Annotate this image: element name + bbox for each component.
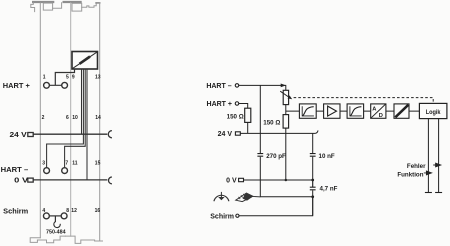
- module top link ledge 1: [53, 3, 62, 8]
- pin 7: [62, 168, 68, 174]
- wire C3 to Schirm line: [312, 190, 314, 215]
- block filter 1: [299, 104, 316, 118]
- bus line right from Logik: [438, 119, 440, 193]
- resistor R1 150 Ohm: [245, 108, 251, 122]
- block amplifier: [324, 104, 340, 118]
- capacitor C1 270 pF: [257, 154, 263, 157]
- wire R1 to 24V rail: [247, 122, 249, 133]
- module bottom profile right: [65, 236, 94, 243]
- 24V rail wire: [33, 133, 108, 135]
- bus line right end bar: [435, 192, 442, 194]
- block A/D converter: [371, 104, 386, 119]
- terminal 24V plug: [235, 132, 240, 135]
- svg-text:Funktion: Funktion: [397, 171, 423, 178]
- svg-text:4: 4: [42, 208, 45, 214]
- svg-text:0 V: 0 V: [14, 178, 28, 185]
- junction dot shield node: [311, 195, 314, 198]
- internal bus wire 4 (to 0V rail): [86, 69, 88, 180]
- shield symbol: [236, 193, 261, 202]
- block Logik: [419, 103, 447, 118]
- module right edge: [99, 3, 101, 241]
- block galvanic isolation: [394, 104, 409, 118]
- electronics converter box U1 with diagonal: [72, 52, 98, 70]
- terminal HART -: [235, 84, 239, 88]
- shield clamp hook: [54, 216, 60, 228]
- junction dot 0V rail: [311, 179, 314, 182]
- 0V pass-through contact arc: [109, 177, 112, 184]
- svg-text:10: 10: [72, 115, 78, 121]
- modulator arrow diagonal: [280, 91, 290, 98]
- module top link ledge 2: [82, 3, 100, 7]
- svg-text:5: 5: [66, 75, 69, 81]
- bus line left end bar: [425, 192, 432, 194]
- wire 24V rail to C2: [312, 133, 314, 153]
- terminal HART +: [235, 102, 239, 106]
- pin 8: [61, 213, 67, 219]
- svg-text:6: 6: [66, 115, 69, 121]
- svg-text:150 Ω: 150 Ω: [227, 113, 244, 120]
- module top notch box 1: [43, 3, 52, 10]
- wire C1 to shield node: [260, 157, 312, 197]
- arrow Funktion to left bus line: [424, 171, 432, 175]
- junction dot R2 on 0V rail: [285, 179, 288, 182]
- functional earth symbol: [214, 192, 229, 201]
- svg-text:750-484: 750-484: [46, 230, 66, 236]
- pin 1: [44, 82, 50, 88]
- arrow Fehler to right bus line: [433, 163, 441, 167]
- module column separator: [70, 3, 72, 236]
- bus line left from Logik: [427, 119, 429, 193]
- svg-text:4,7 nF: 4,7 nF: [320, 185, 338, 192]
- svg-text:24 V: 24 V: [10, 132, 28, 139]
- dashed control line modulator to Logik: [294, 98, 434, 104]
- svg-text:7: 7: [65, 160, 68, 166]
- wire modulator to node A: [285, 105, 287, 115]
- svg-text:HART –: HART –: [206, 83, 231, 90]
- svg-text:2: 2: [42, 115, 45, 121]
- 0V rail wire: [244, 179, 313, 181]
- svg-text:11: 11: [72, 160, 78, 166]
- terminal Schirm: [236, 214, 239, 217]
- wire R2 to 0V rail: [285, 128, 287, 180]
- svg-text:13: 13: [95, 75, 101, 81]
- internal bus wire 2 (to pin 3): [47, 69, 84, 168]
- svg-text:A: A: [372, 107, 376, 113]
- svg-text:Schirm: Schirm: [210, 214, 234, 221]
- svg-text:D: D: [379, 113, 383, 119]
- 24V rail wire with end hook: [240, 130, 318, 133]
- 24V terminal plug: [28, 133, 33, 137]
- svg-text:150 Ω: 150 Ω: [263, 120, 280, 127]
- svg-text:9: 9: [72, 75, 75, 81]
- 0V rail wire: [33, 179, 108, 181]
- svg-text:HART +: HART +: [3, 83, 30, 90]
- module top profile bar A: [33, 1, 53, 3]
- svg-text:14: 14: [95, 115, 101, 121]
- svg-text:15: 15: [95, 160, 101, 166]
- svg-text:1: 1: [43, 75, 46, 81]
- svg-text:24 V: 24 V: [218, 131, 233, 138]
- module bottom right foot: [95, 240, 103, 242]
- HART+ bridge wire pins 1-5 to box: [49, 69, 74, 85]
- svg-text:16: 16: [95, 208, 101, 214]
- module top left latch claw: [31, 3, 35, 12]
- wire C2 to 0V rail: [312, 157, 314, 180]
- capacitor C2 10 nF: [310, 154, 316, 157]
- 24V pass-through contact arc: [108, 131, 112, 138]
- module left edge: [39, 3, 41, 238]
- block filter 2: [347, 104, 364, 118]
- wire HART + to R1: [239, 104, 248, 109]
- current direction arrow: [281, 84, 286, 88]
- svg-text:3: 3: [42, 160, 45, 166]
- Schirm wire: [239, 197, 313, 216]
- svg-text:HART +: HART +: [207, 101, 232, 108]
- internal bus wire 3 (to pin 7): [65, 69, 86, 168]
- 0V terminal plug: [28, 178, 33, 182]
- module top notch box 2: [72, 3, 82, 11]
- svg-text:HART –: HART –: [1, 167, 29, 174]
- resistor R2 150 Ohm: [283, 115, 289, 129]
- capacitor C3 4,7 nF: [310, 180, 316, 190]
- module top profile bar B: [64, 1, 81, 3]
- internal bus wire 1 (to 24V rail): [81, 69, 83, 134]
- module bottom profile left: [30, 236, 65, 243]
- svg-text:Logik: Logik: [426, 110, 441, 116]
- pin 5: [62, 82, 68, 88]
- pin 4: [43, 213, 49, 219]
- svg-text:12: 12: [71, 208, 77, 214]
- wire HART - to modulator: [239, 85, 286, 90]
- signal chain wire: [286, 110, 420, 112]
- wire HART- tap to C1: [259, 85, 261, 153]
- svg-text:270 pF: 270 pF: [266, 153, 286, 160]
- svg-text:10 nF: 10 nF: [319, 153, 335, 160]
- svg-text:Schirm: Schirm: [3, 209, 28, 216]
- terminal 0V plug: [239, 178, 244, 181]
- svg-text:Fehler: Fehler: [407, 163, 426, 170]
- pin 3: [44, 168, 50, 174]
- svg-text:8: 8: [66, 208, 69, 214]
- modulator variable resistor: [283, 90, 288, 104]
- module top right cap: [96, 2, 100, 4]
- svg-text:0 V: 0 V: [226, 177, 237, 184]
- shield clamp wire pins 4-8: [49, 215, 61, 217]
